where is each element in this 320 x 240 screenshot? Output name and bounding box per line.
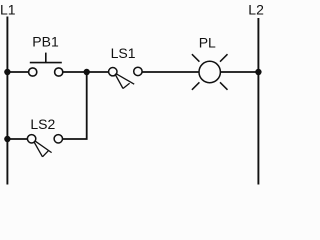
pilot light PL — [192, 54, 228, 90]
node junction L1 rail / rung 2 — [4, 136, 10, 142]
wire LS1 to PL — [142, 71, 199, 73]
svg-text:PB1: PB1 — [32, 33, 59, 49]
wire PL to L2 rail — [220, 71, 258, 73]
node junction L2 rail / rung 1 — [255, 69, 261, 75]
node A branch junction — [84, 69, 90, 75]
svg-text:L2: L2 — [248, 2, 264, 18]
svg-text:LS2: LS2 — [30, 116, 55, 132]
limit switch LS1 — [109, 67, 142, 88]
svg-text:L1: L1 — [0, 2, 16, 18]
svg-text:PL: PL — [199, 34, 216, 50]
wire node A to LS1 — [87, 71, 109, 73]
wire right rail L2 — [257, 18, 259, 185]
wire left rail L1 — [6, 17, 8, 185]
wire PB1 to node A — [63, 71, 87, 73]
wire LS2 to node A branch — [63, 72, 87, 139]
wire L1 rail to PB1 — [7, 71, 28, 73]
pushbutton PB1 — [29, 53, 63, 77]
node junction L1 rail / rung 1 — [4, 69, 10, 75]
wire L1 rail to LS2 — [7, 138, 27, 140]
limit switch LS2 — [27, 135, 62, 157]
svg-text:LS1: LS1 — [111, 45, 136, 61]
